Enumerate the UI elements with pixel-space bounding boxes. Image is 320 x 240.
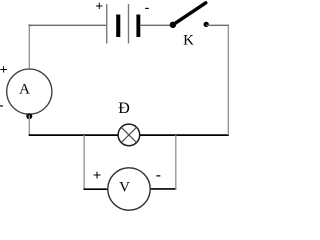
label K (switch)	[183, 32, 194, 48]
wire voltmeter left branch vertical	[83, 135, 85, 190]
wire top horizontal switch to top-right corner	[206, 24, 229, 26]
voltmeter U2 circle	[108, 168, 150, 210]
svg-text:+: +	[0, 63, 8, 78]
label V (voltmeter)	[119, 180, 130, 196]
label + (voltmeter positive terminal)	[93, 168, 102, 184]
switch K right contact dot	[204, 22, 209, 27]
svg-text:+: +	[93, 168, 102, 184]
battery negative short thick plate 2	[136, 15, 140, 38]
wire top-left horizontal from left corner to battery positive plate	[29, 24, 107, 26]
ammeter U1 circle	[7, 69, 52, 114]
label + (battery positive)	[95, 0, 103, 14]
label + (ammeter positive terminal)	[0, 63, 8, 78]
svg-text:K: K	[183, 32, 194, 48]
junction dot at ammeter bottom	[26, 113, 32, 119]
lamp D cross diagonal 1	[121, 127, 136, 142]
label - (voltmeter negative terminal)	[156, 167, 161, 183]
junction top-left corner	[28, 24, 30, 26]
wire left vertical from ammeter bottom to middle wire	[28, 115, 30, 135]
wire top horizontal battery to switch	[140, 24, 173, 26]
svg-text:+: +	[95, 0, 103, 14]
svg-text:-: -	[0, 98, 4, 113]
switch K lever arm	[173, 3, 206, 25]
wire middle horizontal left segment to lamp	[29, 134, 118, 136]
wire left vertical from top-left corner down to ammeter top	[28, 25, 30, 69]
lamp D circle	[118, 124, 140, 146]
lamp D cross diagonal 2	[121, 127, 136, 142]
battery positive long plate 1	[106, 4, 108, 44]
wire voltmeter right branch horizontal	[151, 188, 177, 190]
svg-text:V: V	[119, 180, 130, 196]
svg-text:-: -	[145, 1, 150, 16]
battery negative short thick plate 1	[116, 15, 120, 38]
label D (lamp designator)	[118, 100, 130, 117]
svg-text:A: A	[19, 81, 30, 97]
battery positive long plate 2	[128, 4, 130, 44]
label - (battery negative)	[145, 1, 150, 16]
wire middle horizontal right segment from lamp to right corner	[140, 134, 229, 136]
wire voltmeter left branch horizontal	[84, 188, 108, 190]
switch K left contact dot	[170, 22, 176, 28]
label - (ammeter negative terminal)	[0, 98, 4, 113]
wire right vertical from switch side down to middle wire	[227, 25, 229, 135]
svg-text:Đ: Đ	[118, 100, 130, 117]
wire voltmeter right branch vertical	[175, 135, 177, 189]
label A (ammeter)	[19, 81, 30, 97]
svg-text:-: -	[156, 167, 161, 183]
